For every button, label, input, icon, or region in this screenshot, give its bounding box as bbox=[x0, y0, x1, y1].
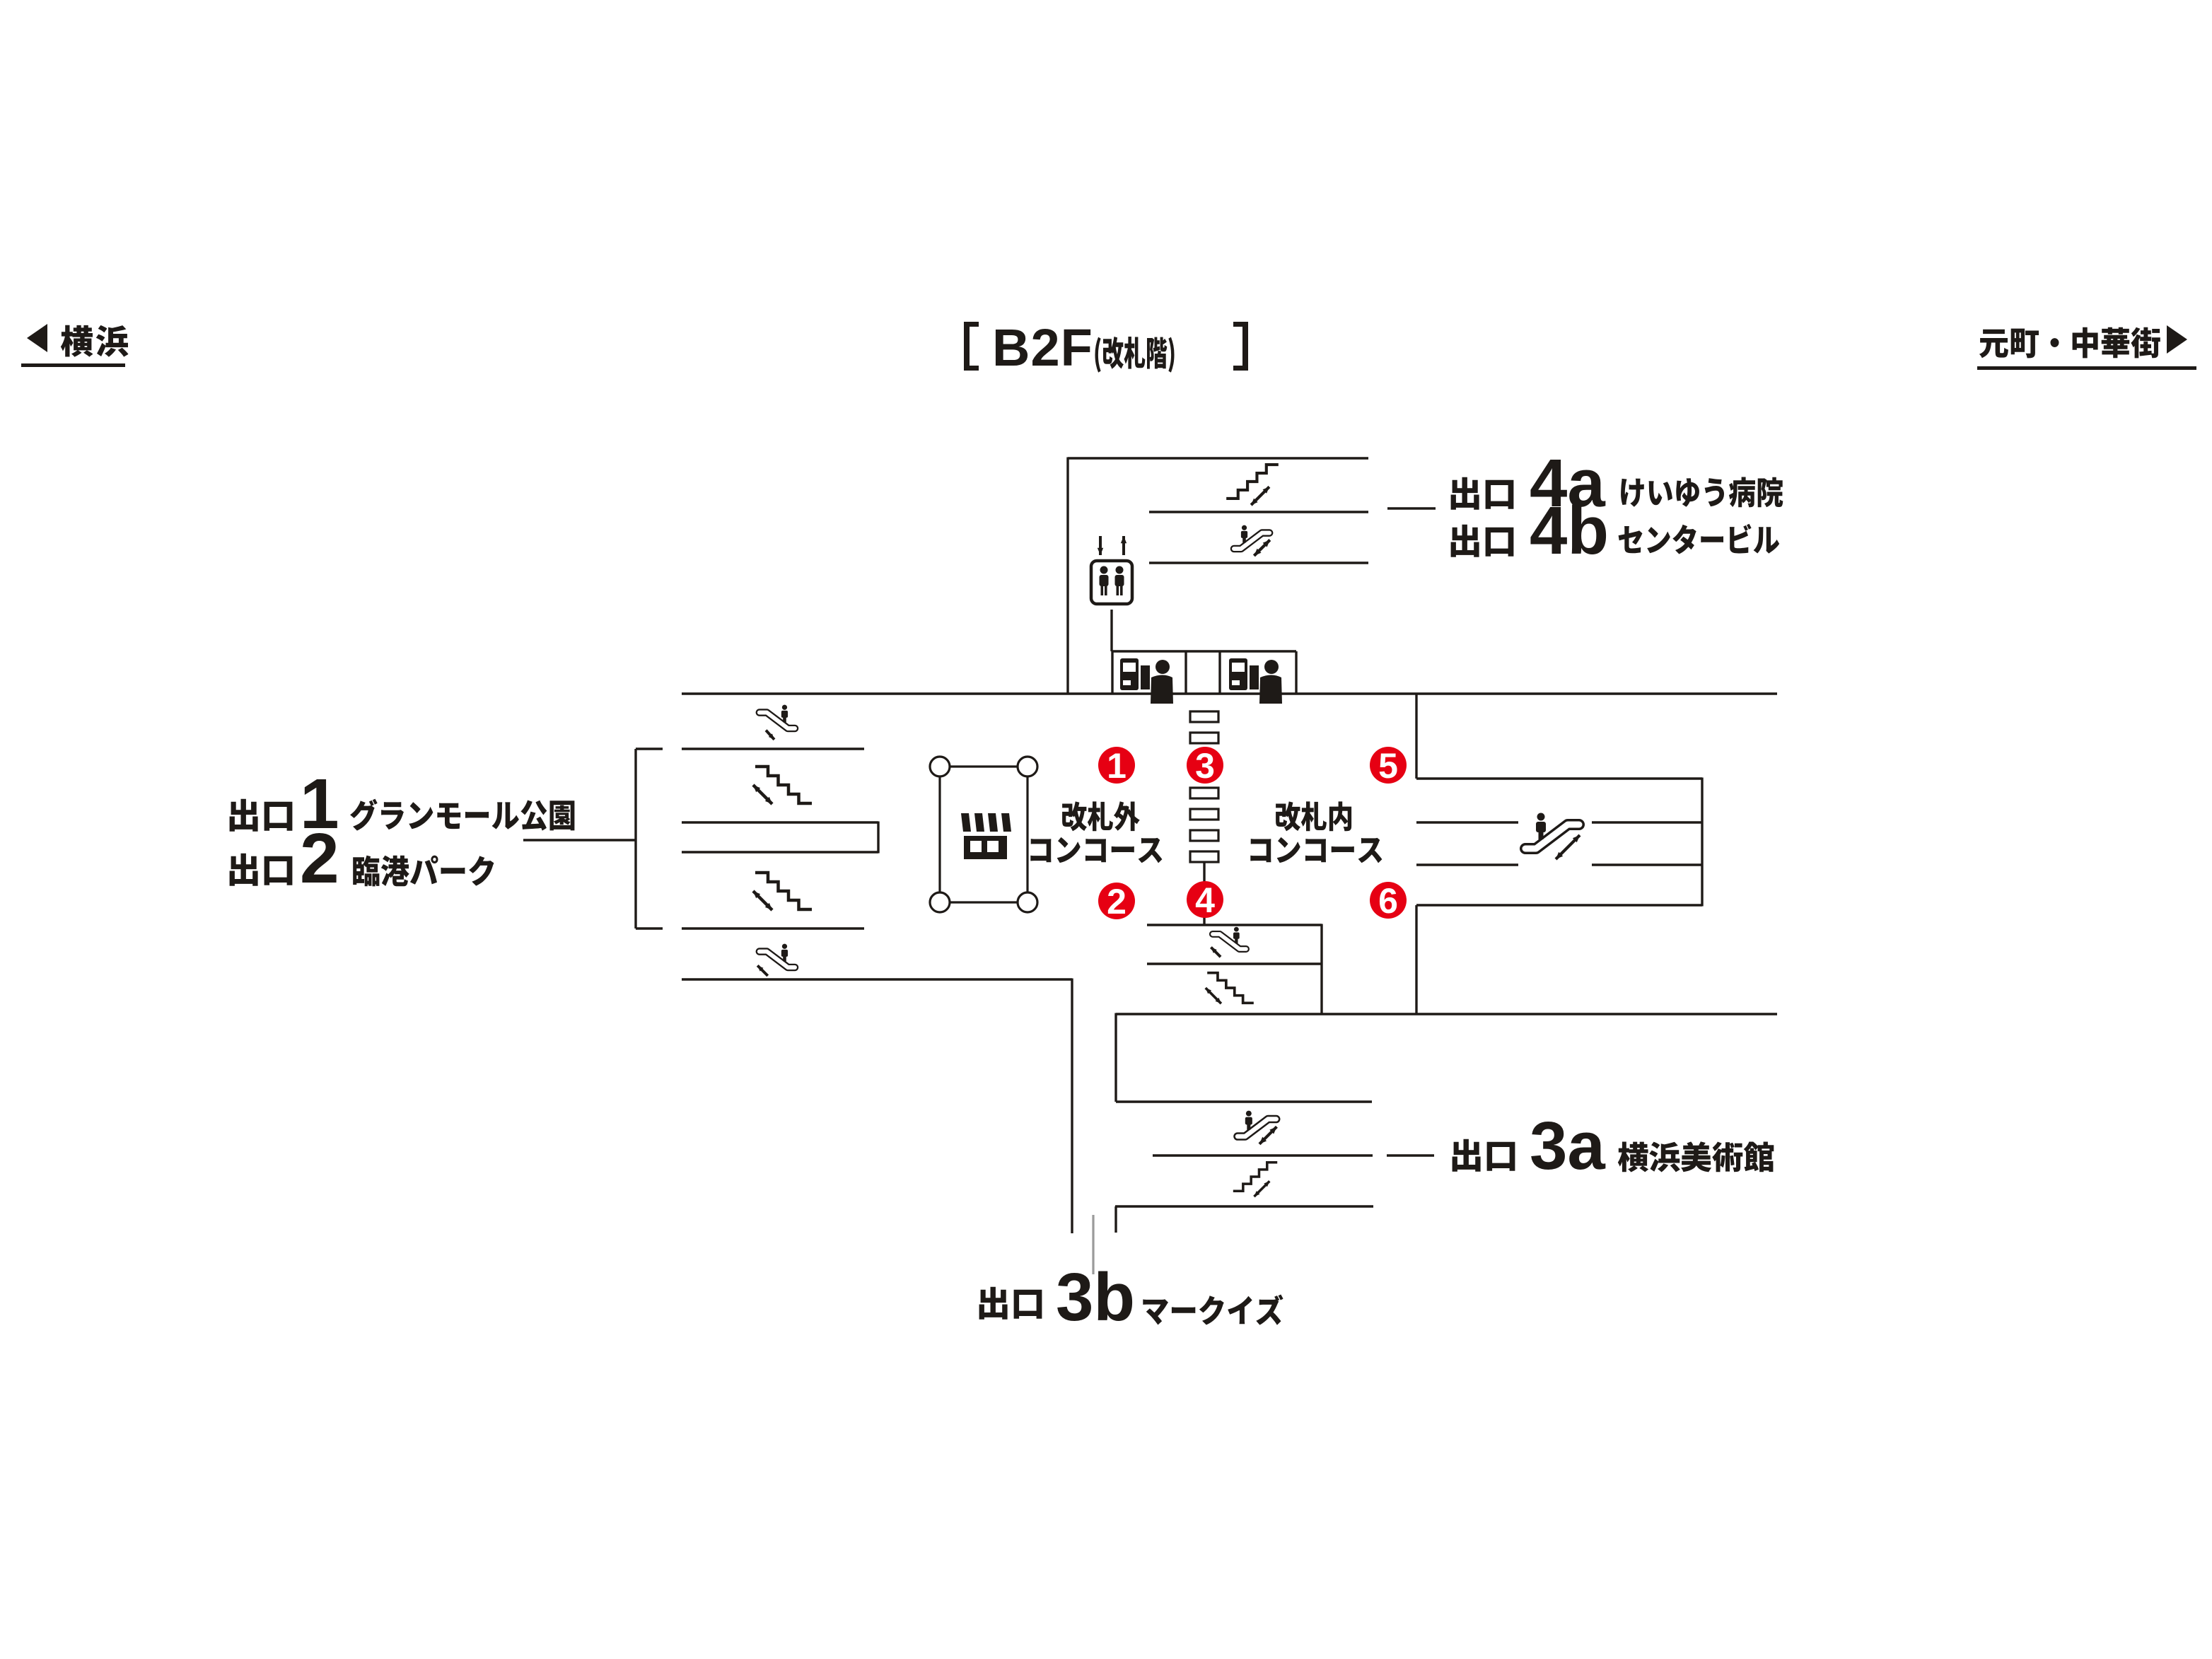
svg-text:2: 2 bbox=[1107, 882, 1127, 921]
svg-text:5: 5 bbox=[1378, 746, 1398, 786]
svg-text:3: 3 bbox=[1195, 746, 1215, 786]
svg-text:B2F: B2F bbox=[992, 318, 1093, 377]
svg-text:4b: 4b bbox=[1530, 493, 1609, 569]
svg-text:2: 2 bbox=[300, 819, 339, 898]
svg-text:4: 4 bbox=[1195, 880, 1215, 920]
svg-text:6: 6 bbox=[1378, 881, 1398, 921]
svg-text:3a: 3a bbox=[1530, 1108, 1605, 1184]
svg-text:3b: 3b bbox=[1056, 1259, 1135, 1335]
svg-text:1: 1 bbox=[1107, 746, 1127, 786]
